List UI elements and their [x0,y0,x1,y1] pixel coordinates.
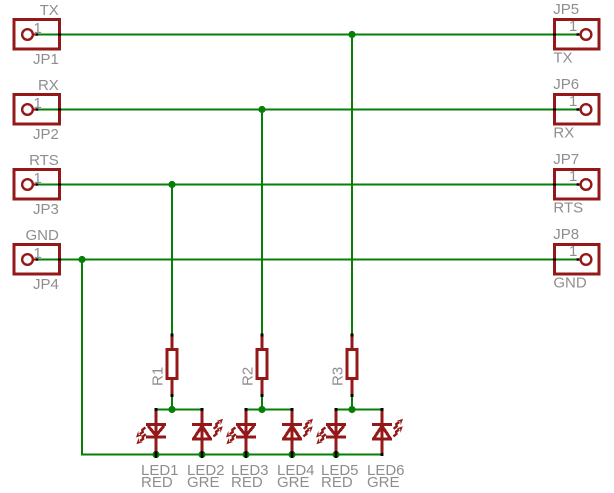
light arrows LED4 [303,419,313,437]
pin 1 junction JP8 [577,258,580,260]
connector JP4 [14,245,60,275]
junction LED1 rail [152,451,159,458]
connector JP7 [555,170,600,200]
svg-text:JP7: JP7 [553,151,579,168]
pin 1 junction JP5 [577,33,580,35]
resistor R1 [167,336,177,395]
wire GND vertical drop [81,260,83,456]
wire R3 bottom to LED pair [351,396,353,410]
connector JP8 [555,245,600,275]
svg-text:1: 1 [34,95,42,112]
light arrows LED6 [393,419,403,437]
wire cross tick JP4 [58,259,61,261]
svg-text:1: 1 [569,243,577,260]
pin 1 junction JP1 [36,33,39,35]
wire cross tick JP7 [553,184,556,186]
light arrows LED3 [226,427,236,444]
pin junction LED1 bottom [155,451,158,458]
connector JP6 [555,95,600,125]
wire net TX horizontal [38,34,576,36]
svg-text:RTS: RTS [553,200,583,217]
wire net GND horizontal [38,259,576,261]
svg-text:1: 1 [34,20,42,37]
wire tick LED5 top [335,408,338,411]
svg-text:GRE: GRE [187,474,220,491]
svg-text:TX: TX [40,2,59,19]
svg-text:1: 1 [569,18,577,35]
svg-text:1: 1 [569,168,577,185]
pin stub JP6 [577,108,580,110]
pin 1 junction JP4 [36,258,39,260]
connector JP5 [555,20,600,50]
pin junction LED3 bottom [245,451,248,458]
wire cross tick JP3 [58,184,61,186]
connector JP2 [14,95,60,125]
resistor R2 [257,336,267,395]
pin junction LED5 bottom [335,451,338,458]
pin stub JP7 [577,183,580,185]
svg-text:1: 1 [569,93,577,110]
svg-text:R1: R1 [150,367,167,386]
pin junction LED4 bottom [291,451,294,458]
resistor R3 [347,336,357,395]
junction R3 bottom [348,406,355,413]
pin junction R1 bottom [171,394,174,397]
svg-text:JP6: JP6 [553,76,579,93]
LED LED2 (GRE, cathode up) [192,411,212,455]
pin junction LED2 bottom [201,451,204,458]
svg-text:JP1: JP1 [33,51,59,68]
svg-text:1: 1 [34,245,42,262]
wire LED pair 1/2 top [156,409,202,411]
svg-text:JP8: JP8 [553,226,579,243]
junction RTS/R1 [168,181,175,188]
LED LED5 (RED, cathode down) [326,411,346,455]
wire net RTS horizontal [38,184,576,186]
svg-text:GRE: GRE [277,474,310,491]
junction GND drop [78,256,85,263]
LED LED4 (GRE, cathode up) [282,411,302,455]
junction R1 bottom [168,406,175,413]
pin stub JP2 [34,108,37,110]
pin 1 junction JP3 [36,183,39,185]
svg-text:JP4: JP4 [33,276,59,293]
svg-text:JP3: JP3 [33,201,59,218]
svg-text:R3: R3 [330,367,347,386]
pin 1 junction JP6 [577,108,580,110]
connector JP3 [14,170,60,200]
wire cross tick JP1 [58,34,61,36]
pin junction R3 bottom [351,394,354,397]
pin junction R2 bottom [261,394,264,397]
connector JP1 [14,20,60,50]
pin stub JP8 [577,258,580,260]
svg-text:JP5: JP5 [553,1,579,18]
wire LED pair 5/6 top [336,409,382,411]
svg-text:GRE: GRE [367,474,400,491]
pin stub JP5 [577,33,580,35]
light arrows LED2 [213,419,223,437]
wire tick LED4 top [291,408,294,411]
wire LED pair 3/4 top [246,409,292,411]
pin 1 junction JP7 [577,183,580,185]
pin junction R1 top [171,334,174,337]
LED LED3 (RED, cathode down) [236,411,256,455]
pin junction R2 top [261,334,264,337]
svg-text:RX: RX [38,77,59,94]
LED LED6 (GRE, cathode up) [372,411,392,455]
wire net TX vertical to R3 [351,35,353,335]
junction LED2 rail [198,451,205,458]
LED LED1 (RED, cathode down) [146,411,166,455]
junction LED5 rail [332,451,339,458]
svg-text:RX: RX [553,125,574,142]
wire cross tick JP5 [553,34,556,36]
svg-text:TX: TX [553,50,572,67]
wire net RX horizontal [38,109,576,111]
light arrows LED1 [136,427,146,444]
pin 1 junction JP2 [36,108,39,110]
pin junction LED6 bottom [381,453,384,456]
svg-text:RED: RED [141,474,173,491]
wire tick LED3 top [245,408,248,411]
wire tick LED6 top [381,408,384,411]
junction LED4 rail [288,451,295,458]
wire GND bottom rail [81,454,382,456]
wire net RX vertical to R2 [261,110,263,335]
pin junction R3 top [351,334,354,337]
junction LED3 rail [242,451,249,458]
junction RX/R2 [258,106,265,113]
pin stub JP4 [34,258,37,260]
pin stub JP3 [34,183,37,185]
svg-text:RED: RED [321,474,353,491]
svg-text:GND: GND [25,227,59,244]
svg-text:1: 1 [34,170,42,187]
pin stub JP1 [34,33,37,35]
svg-text:RED: RED [231,474,263,491]
light arrows LED5 [316,427,326,444]
wire tick LED1 top [155,408,158,411]
svg-text:R2: R2 [240,367,257,386]
svg-text:RTS: RTS [29,152,59,169]
wire cross tick JP6 [553,109,556,111]
svg-text:JP2: JP2 [33,126,59,143]
junction R2 bottom [258,406,265,413]
wire R1 bottom to LED pair [171,396,173,410]
wire cross tick JP2 [58,109,61,111]
wire cross tick JP8 [553,259,556,261]
wire net RTS vertical to R1 [171,185,173,335]
svg-text:GND: GND [553,275,587,292]
wire tick LED2 top [201,408,204,411]
junction TX/R3 [348,31,355,38]
wire R2 bottom to LED pair [261,396,263,410]
